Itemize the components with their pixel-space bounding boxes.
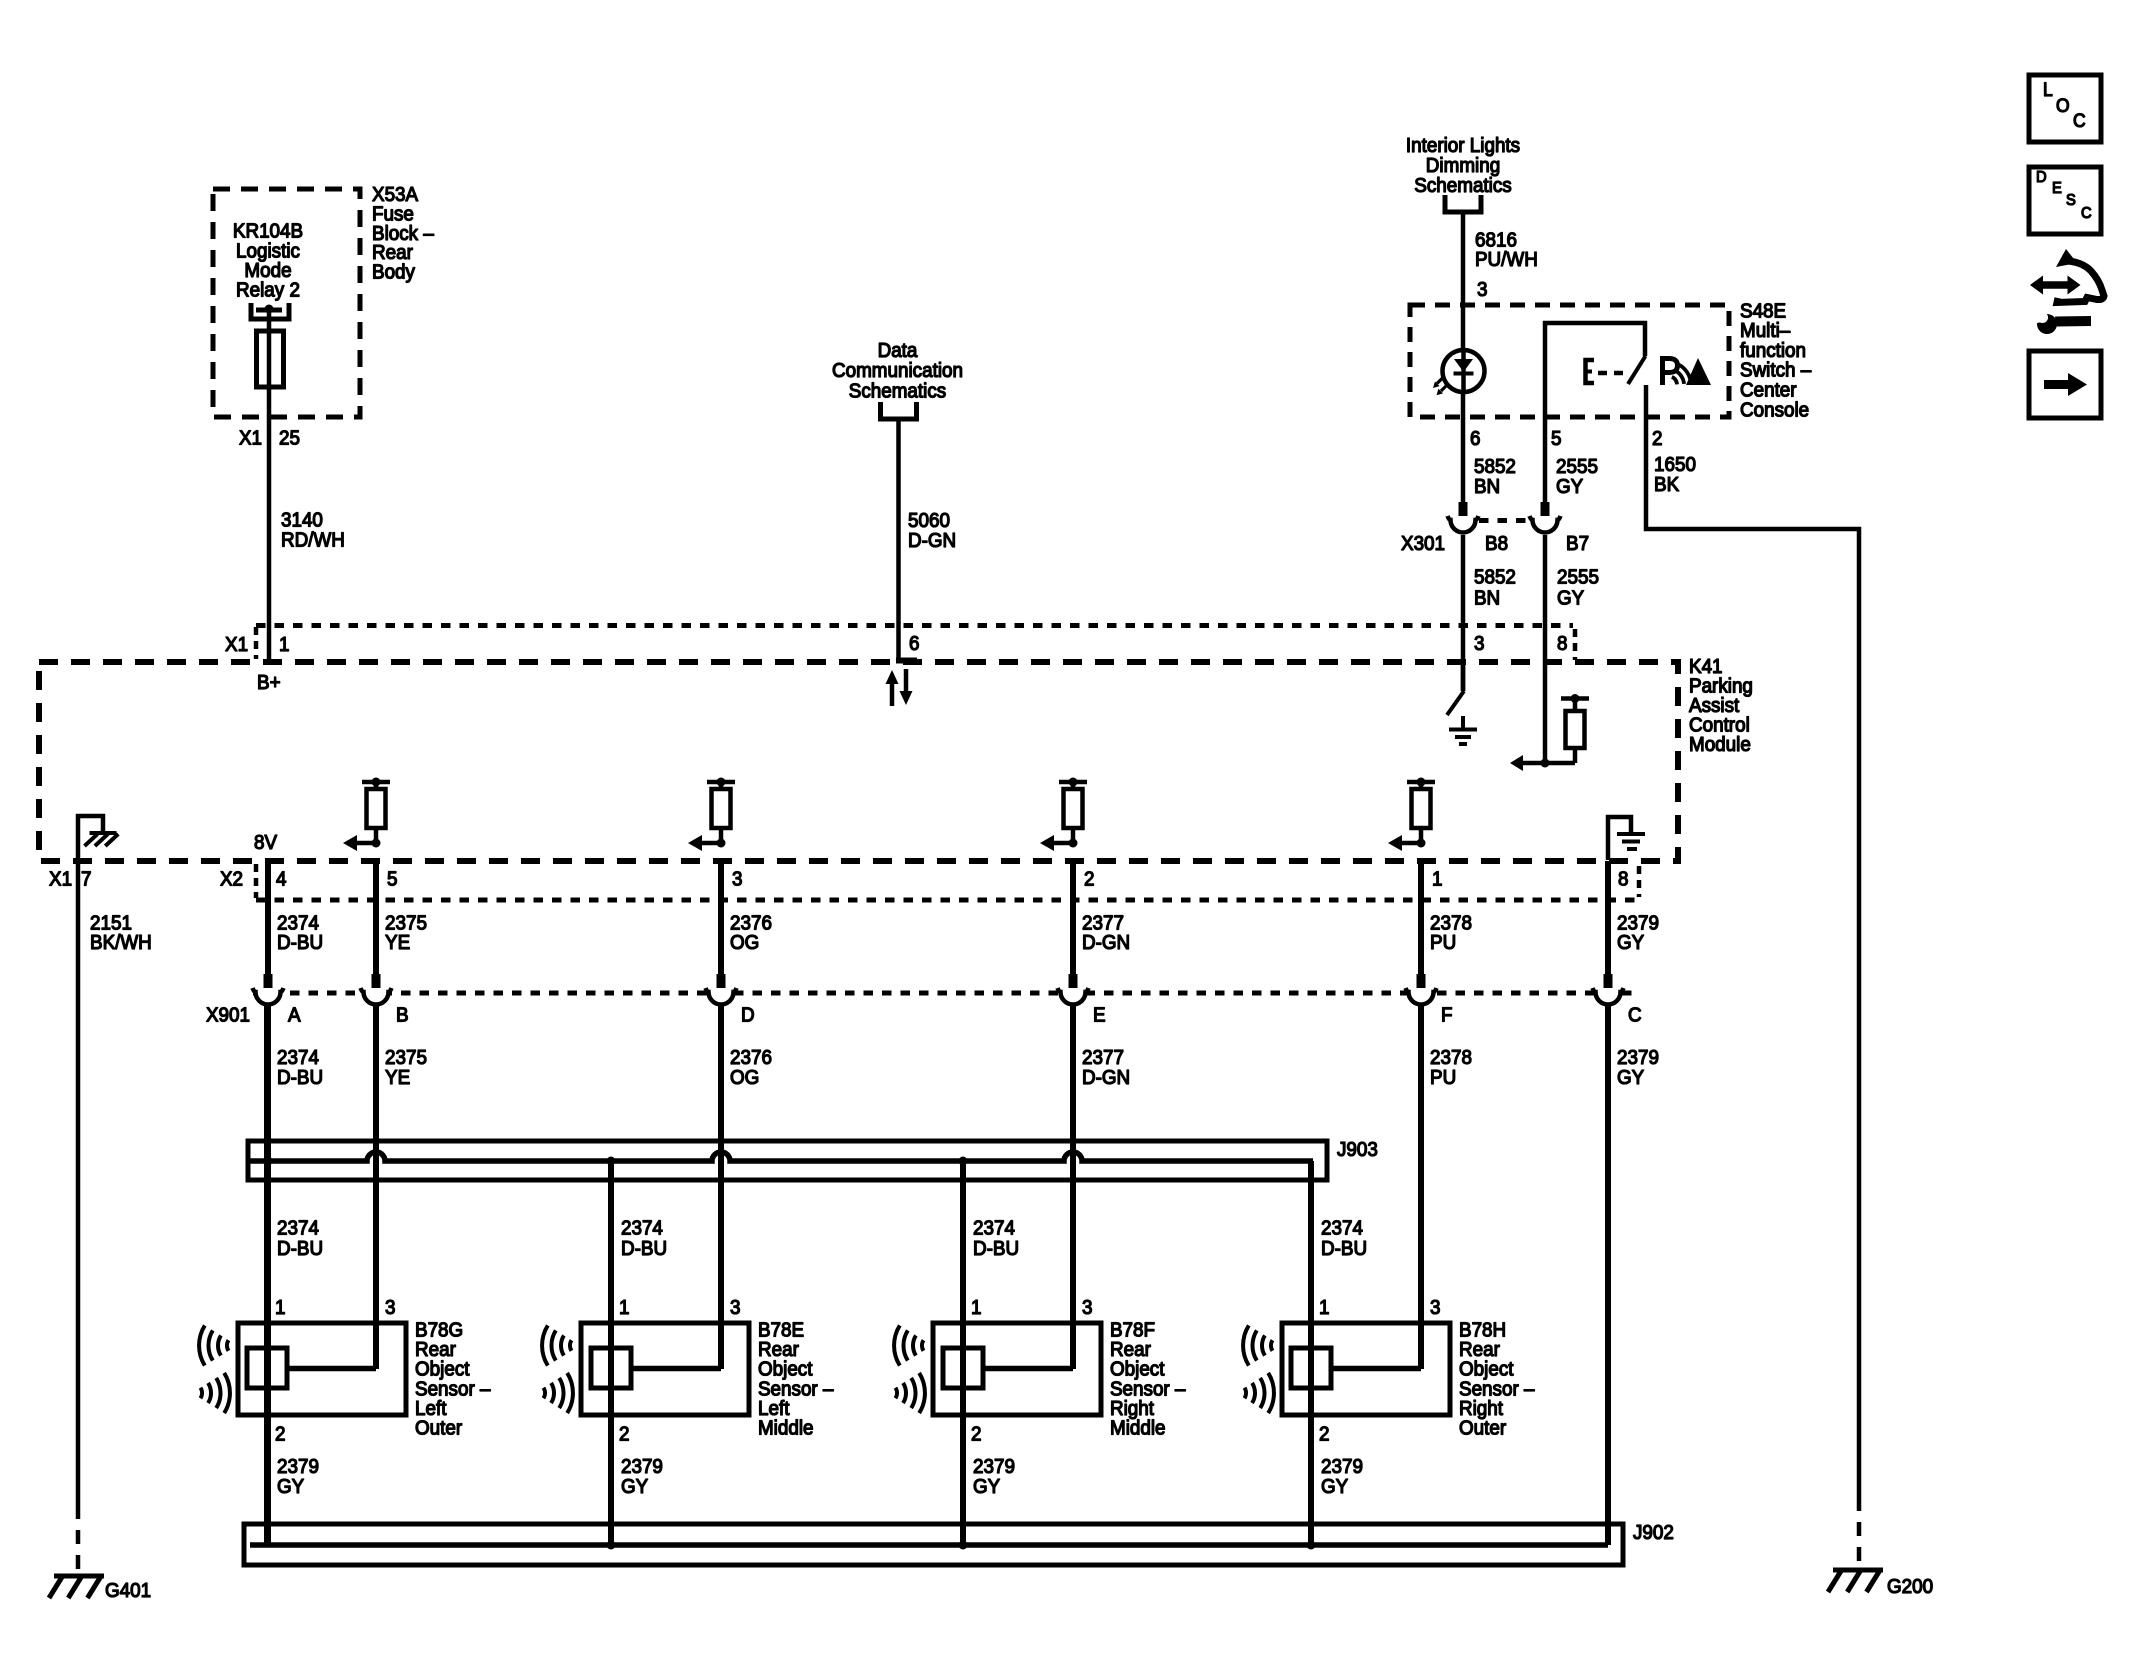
svg-text:PU/WH: PU/WH <box>1475 248 1538 271</box>
svg-text:3: 3 <box>1477 278 1488 301</box>
svg-text:5: 5 <box>387 868 398 891</box>
svg-text:E: E <box>1093 1004 1106 1027</box>
svg-text:8: 8 <box>1618 868 1629 891</box>
svg-text:O: O <box>2056 94 2070 116</box>
svg-text:RD/WH: RD/WH <box>281 529 345 552</box>
svg-text:1: 1 <box>1319 1296 1329 1319</box>
svg-text:J903: J903 <box>1337 1138 1378 1161</box>
svg-text:Schematics: Schematics <box>1414 174 1512 197</box>
svg-text:L: L <box>2043 78 2053 100</box>
svg-text:X901: X901 <box>206 1004 250 1027</box>
svg-text:8V: 8V <box>254 831 278 854</box>
svg-text:Module: Module <box>1689 733 1751 756</box>
svg-text:2: 2 <box>1084 868 1094 891</box>
svg-text:GY: GY <box>1617 931 1644 954</box>
svg-text:Outer: Outer <box>415 1417 463 1440</box>
svg-text:2: 2 <box>275 1423 285 1446</box>
svg-text:6: 6 <box>909 632 920 655</box>
svg-text:2: 2 <box>619 1423 629 1446</box>
svg-text:X1: X1 <box>49 868 72 891</box>
svg-text:S: S <box>2066 191 2076 209</box>
svg-text:GY: GY <box>1321 1475 1348 1498</box>
svg-text:2: 2 <box>971 1423 981 1446</box>
svg-text:BK/WH: BK/WH <box>90 931 152 954</box>
svg-text:2374: 2374 <box>1321 1217 1363 1240</box>
svg-text:Outer: Outer <box>1459 1417 1507 1440</box>
svg-text:D-GN: D-GN <box>1082 931 1130 954</box>
svg-text:2: 2 <box>1319 1423 1329 1446</box>
svg-text:4: 4 <box>276 868 287 891</box>
svg-text:D-BU: D-BU <box>973 1237 1019 1260</box>
svg-text:Middle: Middle <box>1110 1417 1166 1440</box>
svg-text:D-BU: D-BU <box>277 1237 323 1260</box>
svg-text:1: 1 <box>971 1296 981 1319</box>
svg-text:8: 8 <box>1557 632 1568 655</box>
svg-text:C: C <box>1628 1004 1642 1027</box>
svg-text:GY: GY <box>277 1475 304 1498</box>
svg-text:OG: OG <box>730 1066 759 1089</box>
svg-text:3: 3 <box>732 868 743 891</box>
svg-text:GY: GY <box>621 1475 648 1498</box>
svg-text:GY: GY <box>1617 1066 1644 1089</box>
svg-text:2: 2 <box>1652 427 1662 450</box>
svg-text:B: B <box>396 1004 409 1027</box>
svg-text:1: 1 <box>275 1296 285 1319</box>
svg-text:C: C <box>2073 109 2086 131</box>
svg-text:2374: 2374 <box>621 1217 663 1240</box>
svg-text:D-BU: D-BU <box>1321 1237 1367 1260</box>
svg-text:BN: BN <box>1474 587 1500 610</box>
svg-text:G401: G401 <box>105 1579 151 1602</box>
svg-text:Console: Console <box>1740 399 1809 422</box>
svg-text:D-GN: D-GN <box>908 529 956 552</box>
svg-text:2555: 2555 <box>1557 566 1599 589</box>
svg-text:B7: B7 <box>1566 532 1589 555</box>
svg-text:E: E <box>2052 179 2062 197</box>
svg-text:3: 3 <box>1082 1296 1093 1319</box>
svg-text:PU: PU <box>1430 931 1456 954</box>
svg-text:1: 1 <box>1432 868 1442 891</box>
svg-text:3: 3 <box>385 1296 396 1319</box>
svg-text:X301: X301 <box>1401 532 1445 555</box>
svg-text:GY: GY <box>1556 475 1583 498</box>
svg-text:5: 5 <box>1551 427 1562 450</box>
svg-text:X1: X1 <box>225 633 248 656</box>
svg-text:3: 3 <box>730 1296 741 1319</box>
svg-text:5852: 5852 <box>1474 566 1516 589</box>
svg-text:YE: YE <box>385 931 410 954</box>
svg-text:3: 3 <box>1430 1296 1441 1319</box>
svg-text:1: 1 <box>619 1296 629 1319</box>
svg-text:2374: 2374 <box>973 1217 1015 1240</box>
svg-text:X2: X2 <box>220 868 243 891</box>
svg-text:GY: GY <box>973 1475 1000 1498</box>
svg-text:G200: G200 <box>1887 1575 1933 1598</box>
svg-text:3: 3 <box>1474 632 1485 655</box>
svg-text:Schematics: Schematics <box>849 380 947 403</box>
svg-text:C: C <box>2081 204 2092 222</box>
svg-text:2374: 2374 <box>277 1217 319 1240</box>
svg-text:6: 6 <box>1470 427 1481 450</box>
svg-text:OG: OG <box>730 931 759 954</box>
svg-text:7: 7 <box>81 868 91 891</box>
svg-text:F: F <box>1441 1004 1453 1027</box>
svg-text:B8: B8 <box>1485 532 1508 555</box>
svg-text:D-BU: D-BU <box>277 931 323 954</box>
svg-text:YE: YE <box>385 1066 410 1089</box>
svg-text:X1: X1 <box>239 427 262 450</box>
svg-text:BK: BK <box>1654 473 1679 496</box>
svg-text:Middle: Middle <box>758 1417 814 1440</box>
svg-text:1: 1 <box>279 633 289 656</box>
svg-text:D-BU: D-BU <box>277 1066 323 1089</box>
svg-text:D: D <box>2036 168 2047 186</box>
svg-text:A: A <box>288 1004 301 1027</box>
svg-text:GY: GY <box>1557 587 1584 610</box>
svg-text:D-BU: D-BU <box>621 1237 667 1260</box>
svg-text:B+: B+ <box>257 671 281 694</box>
svg-text:J902: J902 <box>1633 1521 1674 1544</box>
svg-text:PU: PU <box>1430 1066 1456 1089</box>
svg-text:25: 25 <box>279 427 300 450</box>
svg-text:D: D <box>741 1004 755 1027</box>
svg-text:BN: BN <box>1474 475 1500 498</box>
svg-text:Relay 2: Relay 2 <box>236 279 300 302</box>
svg-text:D-GN: D-GN <box>1082 1066 1130 1089</box>
svg-text:Body: Body <box>372 261 415 284</box>
